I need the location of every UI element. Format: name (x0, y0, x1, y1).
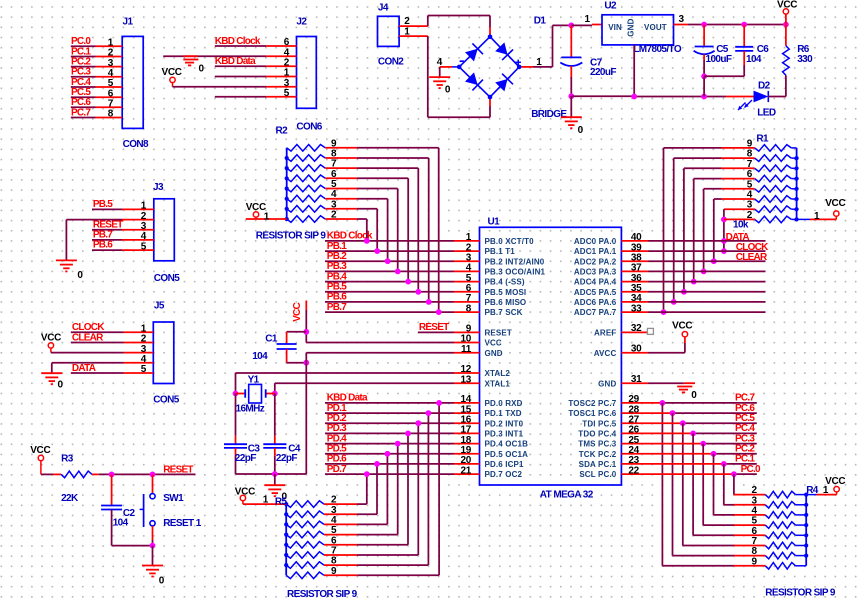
svg-text:ADC5 PA.5: ADC5 PA.5 (574, 288, 617, 297)
svg-text:22pF: 22pF (276, 453, 297, 464)
svg-text:1: 1 (264, 211, 270, 222)
svg-text:J3: J3 (153, 182, 164, 193)
svg-text:1: 1 (814, 211, 820, 222)
svg-text:CON5: CON5 (153, 394, 179, 405)
svg-text:PD.5 OC1A: PD.5 OC1A (485, 450, 529, 459)
svg-text:330: 330 (797, 54, 813, 65)
svg-text:PB.7 SCK: PB.7 SCK (485, 308, 523, 317)
svg-text:PB.4 (-SS): PB.4 (-SS) (485, 278, 525, 287)
svg-text:AT MEGA 32: AT MEGA 32 (540, 490, 594, 501)
svg-text:PD.0 RXD: PD.0 RXD (485, 399, 523, 408)
svg-text:SDA PC.1: SDA PC.1 (579, 460, 617, 469)
svg-text:1: 1 (263, 494, 269, 505)
svg-text:1: 1 (536, 57, 542, 68)
svg-text:KBD Data: KBD Data (215, 56, 256, 67)
svg-text:R2: R2 (276, 125, 289, 136)
svg-text:TOSC1 PC.6: TOSC1 PC.6 (568, 409, 616, 418)
svg-text:8: 8 (466, 303, 472, 314)
svg-text:RESET: RESET (419, 322, 449, 333)
svg-text:VCC: VCC (41, 333, 61, 344)
svg-text:GND: GND (626, 18, 635, 36)
svg-text:J4: J4 (378, 3, 389, 14)
svg-text:VCC: VCC (30, 445, 50, 456)
svg-text:R5: R5 (275, 496, 288, 507)
svg-text:1: 1 (404, 26, 410, 37)
svg-text:CON2: CON2 (378, 57, 404, 68)
svg-text:DATA: DATA (72, 363, 96, 374)
svg-text:1: 1 (585, 14, 591, 25)
svg-text:ADC2 PA.2: ADC2 PA.2 (574, 257, 617, 266)
svg-text:0: 0 (159, 576, 165, 587)
svg-text:C1: C1 (265, 333, 278, 344)
svg-text:22pF: 22pF (235, 453, 256, 464)
svg-text:RESET: RESET (485, 329, 512, 338)
svg-text:PD.7 OC2: PD.7 OC2 (485, 470, 523, 479)
svg-text:3: 3 (679, 14, 685, 25)
svg-text:SCL PC.0: SCL PC.0 (579, 470, 616, 479)
svg-text:104: 104 (113, 517, 129, 528)
svg-text:VCC: VCC (292, 303, 303, 322)
svg-text:D1: D1 (534, 16, 547, 27)
svg-text:PB.5 MOSI: PB.5 MOSI (485, 288, 527, 297)
svg-text:PB.5: PB.5 (93, 199, 113, 210)
svg-text:TDI PC.5: TDI PC.5 (582, 419, 616, 428)
svg-text:VCC: VCC (777, 0, 797, 10)
svg-text:PB.7: PB.7 (327, 302, 347, 313)
svg-text:ADC7 PA.7: ADC7 PA.7 (574, 308, 617, 317)
svg-text:R4: R4 (806, 485, 819, 496)
svg-text:D2: D2 (758, 80, 771, 91)
svg-text:PD.2 INT0: PD.2 INT0 (485, 419, 524, 428)
svg-text:9: 9 (752, 556, 758, 567)
svg-text:GND: GND (485, 349, 503, 358)
svg-text:CLEAR: CLEAR (72, 333, 104, 344)
svg-text:TMS PC.3: TMS PC.3 (578, 440, 616, 449)
svg-text:0: 0 (58, 380, 64, 391)
svg-text:31: 31 (631, 374, 642, 385)
svg-text:16MHz: 16MHz (236, 403, 265, 414)
svg-text:ADC4 PA.4: ADC4 PA.4 (574, 278, 617, 287)
svg-text:0: 0 (691, 390, 697, 401)
svg-text:33: 33 (631, 303, 642, 314)
svg-text:J1: J1 (123, 16, 134, 27)
svg-text:ADC0 PA.0: ADC0 PA.0 (574, 237, 617, 246)
svg-text:LM7805/TO: LM7805/TO (633, 44, 682, 55)
svg-text:XTAL2: XTAL2 (485, 369, 511, 378)
svg-text:ADC6 PA.6: ADC6 PA.6 (574, 298, 617, 307)
svg-text:VCC: VCC (672, 320, 692, 331)
svg-text:104: 104 (252, 351, 268, 362)
svg-text:13: 13 (460, 374, 471, 385)
svg-text:CLOCK: CLOCK (72, 322, 105, 333)
svg-text:RESISTOR SIP 9: RESISTOR SIP 9 (256, 231, 327, 242)
svg-text:11: 11 (461, 344, 472, 355)
svg-text:AVCC: AVCC (594, 349, 617, 358)
svg-text:ADC1 PA.1: ADC1 PA.1 (574, 247, 617, 256)
svg-text:CON8: CON8 (123, 139, 149, 150)
svg-text:RESET 1: RESET 1 (163, 518, 202, 529)
svg-text:PB.6 MISO: PB.6 MISO (485, 298, 527, 307)
svg-text:22: 22 (628, 465, 639, 476)
svg-text:VOUT: VOUT (644, 23, 667, 32)
svg-text:J5: J5 (154, 300, 165, 311)
svg-text:J2: J2 (296, 16, 307, 27)
svg-text:PB.0 XCT/T0: PB.0 XCT/T0 (485, 237, 535, 246)
svg-text:30: 30 (631, 343, 642, 354)
svg-text:PC.0: PC.0 (741, 464, 761, 475)
svg-text:0: 0 (578, 125, 584, 136)
svg-text:Y1: Y1 (248, 374, 260, 385)
svg-text:VCC: VCC (162, 67, 182, 78)
svg-text:22K: 22K (61, 493, 79, 504)
svg-text:PB.2 INT2/AIN0: PB.2 INT2/AIN0 (485, 257, 545, 266)
svg-text:5: 5 (141, 364, 147, 375)
svg-text:CON6: CON6 (296, 121, 322, 132)
svg-text:XTAL1: XTAL1 (485, 379, 511, 388)
svg-text:LED: LED (757, 107, 776, 118)
svg-text:104: 104 (746, 54, 762, 65)
svg-text:PB.3 OCO/AIN1: PB.3 OCO/AIN1 (485, 268, 546, 277)
svg-text:PD.3 INT1: PD.3 INT1 (485, 430, 524, 439)
svg-text:1: 1 (823, 485, 829, 496)
svg-text:PC.7: PC.7 (71, 107, 91, 118)
svg-text:CON5: CON5 (154, 273, 180, 284)
svg-text:10k: 10k (733, 220, 749, 231)
svg-text:U2: U2 (604, 0, 617, 11)
svg-text:0: 0 (199, 64, 205, 75)
svg-text:VCC: VCC (825, 198, 845, 209)
svg-text:GND: GND (598, 379, 616, 388)
svg-text:VCC: VCC (485, 339, 502, 348)
svg-text:RESET: RESET (163, 464, 193, 475)
svg-text:0: 0 (445, 85, 451, 96)
svg-text:PD.1 TXD: PD.1 TXD (485, 409, 522, 418)
svg-text:TOSC2 PC.7: TOSC2 PC.7 (568, 399, 616, 408)
svg-text:5: 5 (141, 241, 147, 252)
svg-text:0: 0 (77, 270, 83, 281)
svg-text:ADC3 PA.3: ADC3 PA.3 (574, 268, 617, 277)
svg-text:32: 32 (631, 323, 642, 334)
svg-text:SW1: SW1 (163, 493, 184, 504)
svg-text:BRIDGE: BRIDGE (531, 109, 567, 120)
svg-text:AREF: AREF (594, 329, 616, 338)
svg-text:KBD Clock: KBD Clock (215, 36, 261, 47)
svg-text:U1: U1 (488, 216, 501, 227)
svg-text:PB.6: PB.6 (93, 240, 113, 251)
svg-text:VIN: VIN (608, 23, 622, 32)
svg-text:PD.7: PD.7 (327, 464, 347, 475)
svg-text:R3: R3 (61, 453, 74, 464)
svg-text:100uF: 100uF (706, 54, 732, 65)
svg-text:8: 8 (108, 109, 114, 120)
svg-text:R1: R1 (756, 133, 769, 144)
svg-text:TDO PC.4: TDO PC.4 (578, 430, 616, 439)
svg-text:PB.1 T1: PB.1 T1 (485, 247, 516, 256)
svg-text:PD.4 OC1B: PD.4 OC1B (485, 440, 529, 449)
svg-text:PD.6 ICP1: PD.6 ICP1 (485, 460, 525, 469)
svg-text:21: 21 (460, 465, 471, 476)
svg-text:TCK PC.2: TCK PC.2 (579, 450, 617, 459)
svg-text:RESISTOR SIP 9: RESISTOR SIP 9 (765, 587, 836, 598)
svg-text:220uF: 220uF (590, 67, 616, 78)
svg-text:RESISTOR SIP 9: RESISTOR SIP 9 (287, 589, 358, 600)
